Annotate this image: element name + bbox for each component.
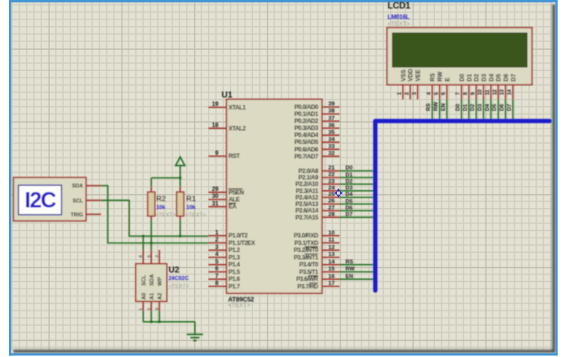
- svg-text:28: 28: [328, 212, 335, 218]
- svg-text:P0.0/AD0: P0.0/AD0: [294, 104, 319, 111]
- svg-text:3: 3: [412, 92, 418, 95]
- svg-text:TRIG: TRIG: [71, 212, 83, 218]
- svg-text:39: 39: [328, 102, 335, 108]
- svg-text:18: 18: [212, 123, 219, 129]
- svg-text:10: 10: [478, 89, 484, 95]
- svg-text:<TEXT>: <TEXT>: [228, 303, 251, 309]
- svg-text:12: 12: [492, 89, 498, 95]
- svg-text:RS: RS: [346, 260, 354, 266]
- svg-text:U1: U1: [222, 89, 233, 99]
- svg-text:A0: A0: [142, 293, 148, 300]
- svg-text:P0.5/AD5: P0.5/AD5: [294, 139, 319, 146]
- svg-text:15: 15: [328, 267, 335, 273]
- svg-text:D5: D5: [346, 199, 353, 205]
- svg-text:D2: D2: [346, 179, 353, 185]
- svg-text:D5: D5: [492, 104, 498, 111]
- svg-text:RST: RST: [229, 153, 241, 160]
- svg-text:EA: EA: [229, 204, 238, 211]
- svg-text:10k: 10k: [186, 205, 196, 211]
- svg-text:13: 13: [500, 89, 506, 95]
- svg-text:D0: D0: [460, 73, 466, 81]
- svg-text:P1.5: P1.5: [229, 269, 241, 276]
- svg-text:13: 13: [328, 252, 335, 258]
- svg-text:10k: 10k: [156, 205, 166, 211]
- svg-text:P3.2/INT0: P3.2/INT0: [294, 247, 319, 254]
- svg-text:XTAL2: XTAL2: [229, 125, 247, 132]
- svg-text:P3.1/TXD: P3.1/TXD: [294, 240, 319, 247]
- svg-text:SDA: SDA: [150, 274, 156, 286]
- svg-text:33: 33: [328, 144, 335, 150]
- svg-text:VDD: VDD: [409, 68, 415, 81]
- svg-text:D0: D0: [346, 166, 353, 172]
- svg-text:P3.5/T1: P3.5/T1: [299, 269, 319, 276]
- svg-text:D6: D6: [346, 205, 353, 211]
- svg-text:7: 7: [456, 92, 462, 95]
- svg-text:<TEXT>: <TEXT>: [169, 284, 189, 290]
- svg-text:D3: D3: [478, 104, 484, 111]
- svg-text:5: 5: [434, 92, 440, 95]
- svg-text:D2: D2: [470, 104, 476, 111]
- svg-text:R2: R2: [156, 194, 166, 203]
- svg-text:P1.7: P1.7: [229, 283, 241, 290]
- svg-text:XTAL1: XTAL1: [229, 104, 247, 111]
- svg-text:19: 19: [212, 102, 219, 108]
- svg-text:P1.1/T2EX: P1.1/T2EX: [229, 240, 257, 247]
- svg-text:RW: RW: [346, 267, 356, 273]
- svg-text:P1.3: P1.3: [229, 254, 241, 261]
- svg-text:U2: U2: [169, 265, 180, 275]
- svg-text:8: 8: [463, 92, 469, 95]
- svg-text:D3: D3: [482, 73, 488, 81]
- svg-text:D4: D4: [346, 192, 354, 198]
- svg-text:WP: WP: [158, 277, 164, 286]
- svg-text:A2: A2: [158, 293, 164, 300]
- svg-text:P0.6/AD6: P0.6/AD6: [294, 146, 319, 153]
- svg-text:6: 6: [441, 92, 447, 95]
- svg-text:EN: EN: [441, 103, 447, 111]
- svg-text:D7: D7: [346, 212, 353, 218]
- svg-text:D1: D1: [463, 104, 469, 111]
- svg-text:17: 17: [328, 281, 334, 287]
- svg-text:14: 14: [328, 259, 335, 265]
- svg-text:D4: D4: [489, 73, 495, 81]
- svg-text:9: 9: [470, 92, 476, 95]
- svg-text:A1: A1: [150, 293, 156, 300]
- svg-text:PSEN: PSEN: [229, 189, 244, 196]
- svg-text:RW: RW: [438, 71, 444, 81]
- svg-text:4: 4: [426, 92, 432, 95]
- svg-text:P3.7/RD: P3.7/RD: [297, 283, 319, 290]
- svg-text:VSS: VSS: [401, 69, 407, 81]
- svg-text:RS: RS: [426, 103, 432, 111]
- svg-text:36: 36: [328, 123, 335, 129]
- svg-text:SDA: SDA: [72, 184, 83, 190]
- svg-text:P1.2: P1.2: [229, 247, 241, 254]
- svg-text:D5: D5: [497, 73, 503, 81]
- svg-text:D6: D6: [500, 104, 506, 111]
- svg-text:1: 1: [397, 92, 403, 95]
- svg-text:38: 38: [328, 109, 335, 115]
- svg-text:P1.4: P1.4: [229, 262, 241, 269]
- svg-text:D1: D1: [346, 172, 353, 178]
- svg-text:D7: D7: [507, 104, 513, 111]
- svg-text:37: 37: [328, 116, 334, 122]
- svg-text:10: 10: [328, 230, 334, 236]
- svg-text:RW: RW: [434, 101, 440, 111]
- svg-text:31: 31: [212, 201, 219, 207]
- svg-text:16: 16: [328, 274, 335, 280]
- svg-text:<TEXT>: <TEXT>: [388, 22, 411, 28]
- svg-text:LCD1: LCD1: [388, 1, 411, 11]
- svg-text:VEE: VEE: [416, 69, 422, 81]
- svg-text:21: 21: [328, 166, 335, 172]
- svg-text:11: 11: [328, 238, 335, 244]
- svg-text:LM016L: LM016L: [388, 14, 410, 21]
- svg-text:2: 2: [404, 92, 410, 95]
- svg-text:30: 30: [212, 194, 219, 200]
- svg-text:24C02C: 24C02C: [169, 276, 189, 282]
- svg-text:P0.7/AD7: P0.7/AD7: [294, 153, 319, 160]
- svg-text:11: 11: [485, 89, 491, 95]
- svg-text:P1.6: P1.6: [229, 276, 241, 283]
- svg-text:22: 22: [328, 172, 334, 178]
- svg-text:<TEXT>: <TEXT>: [155, 213, 175, 219]
- svg-text:D0: D0: [456, 104, 462, 111]
- svg-text:24: 24: [328, 186, 335, 192]
- svg-text:P0.2/AD2: P0.2/AD2: [294, 118, 319, 125]
- svg-text:23: 23: [328, 179, 335, 185]
- svg-text:14: 14: [507, 89, 513, 95]
- svg-text:D7: D7: [511, 73, 517, 81]
- svg-text:D1: D1: [467, 73, 473, 81]
- svg-text:D3: D3: [346, 186, 353, 192]
- svg-text:26: 26: [328, 199, 335, 205]
- svg-text:D2: D2: [475, 73, 481, 81]
- svg-text:D6: D6: [504, 73, 510, 81]
- svg-text:35: 35: [328, 130, 335, 136]
- svg-text:R1: R1: [186, 194, 196, 203]
- svg-text:27: 27: [328, 205, 334, 211]
- svg-text:12: 12: [328, 245, 334, 251]
- svg-text:I2C: I2C: [25, 187, 57, 212]
- svg-text:ALE: ALE: [229, 197, 240, 204]
- svg-text:32: 32: [328, 151, 334, 157]
- svg-text:E: E: [445, 77, 451, 81]
- svg-text:EN: EN: [346, 274, 354, 280]
- svg-text:29: 29: [212, 187, 219, 193]
- svg-text:P3.4/T0: P3.4/T0: [299, 262, 319, 269]
- svg-text:P3.3/INT1: P3.3/INT1: [294, 254, 319, 261]
- svg-text:P2.7/A15: P2.7/A15: [295, 214, 319, 221]
- svg-text:P1.0/T2: P1.0/T2: [229, 233, 249, 240]
- svg-text:<TEXT>: <TEXT>: [186, 213, 206, 219]
- svg-text:D4: D4: [485, 103, 491, 111]
- svg-text:34: 34: [328, 137, 335, 143]
- svg-text:P3.6/WR: P3.6/WR: [296, 276, 319, 283]
- svg-text:P3.0/RXD: P3.0/RXD: [294, 233, 319, 240]
- svg-text:SCL: SCL: [142, 274, 148, 286]
- svg-text:P0.3/AD3: P0.3/AD3: [294, 125, 319, 132]
- svg-text:P0.1/AD1: P0.1/AD1: [294, 111, 319, 118]
- svg-text:RS: RS: [431, 73, 437, 81]
- svg-text:P0.4/AD4: P0.4/AD4: [294, 132, 319, 139]
- svg-text:SCL: SCL: [73, 198, 84, 204]
